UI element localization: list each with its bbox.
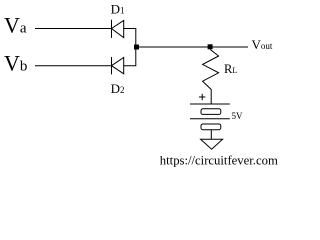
wire D2 cathode to node xyxy=(124,47,136,66)
svg-text:https://circuitfever.com: https://circuitfever.com xyxy=(160,154,278,168)
svg-text:Va: Va xyxy=(4,12,27,37)
battery positive plate cell 1 xyxy=(190,103,230,105)
svg-text:RL: RL xyxy=(224,62,237,76)
wire Va input xyxy=(35,28,112,30)
battery negative plate cell 1 xyxy=(201,109,221,115)
battery polarity plus sign xyxy=(199,94,205,100)
battery positive plate cell 2 xyxy=(190,118,230,120)
svg-text:D1: D1 xyxy=(111,2,125,17)
wire D1 cathode to node xyxy=(124,29,136,48)
wire Vb input xyxy=(35,65,112,67)
svg-text:5V: 5V xyxy=(232,111,244,121)
svg-text:Vb: Vb xyxy=(4,50,27,75)
diode D2 xyxy=(112,57,124,74)
ground xyxy=(201,139,223,149)
wire battery to ground xyxy=(210,130,212,140)
diode D1 xyxy=(112,20,124,38)
output wire xyxy=(136,46,248,48)
svg-text:D2: D2 xyxy=(111,81,125,96)
svg-text:Vout: Vout xyxy=(252,37,273,52)
battery negative plate cell 2 xyxy=(201,124,221,130)
junction node B xyxy=(208,44,213,49)
junction node A xyxy=(134,45,139,50)
resistor RL xyxy=(203,50,219,104)
